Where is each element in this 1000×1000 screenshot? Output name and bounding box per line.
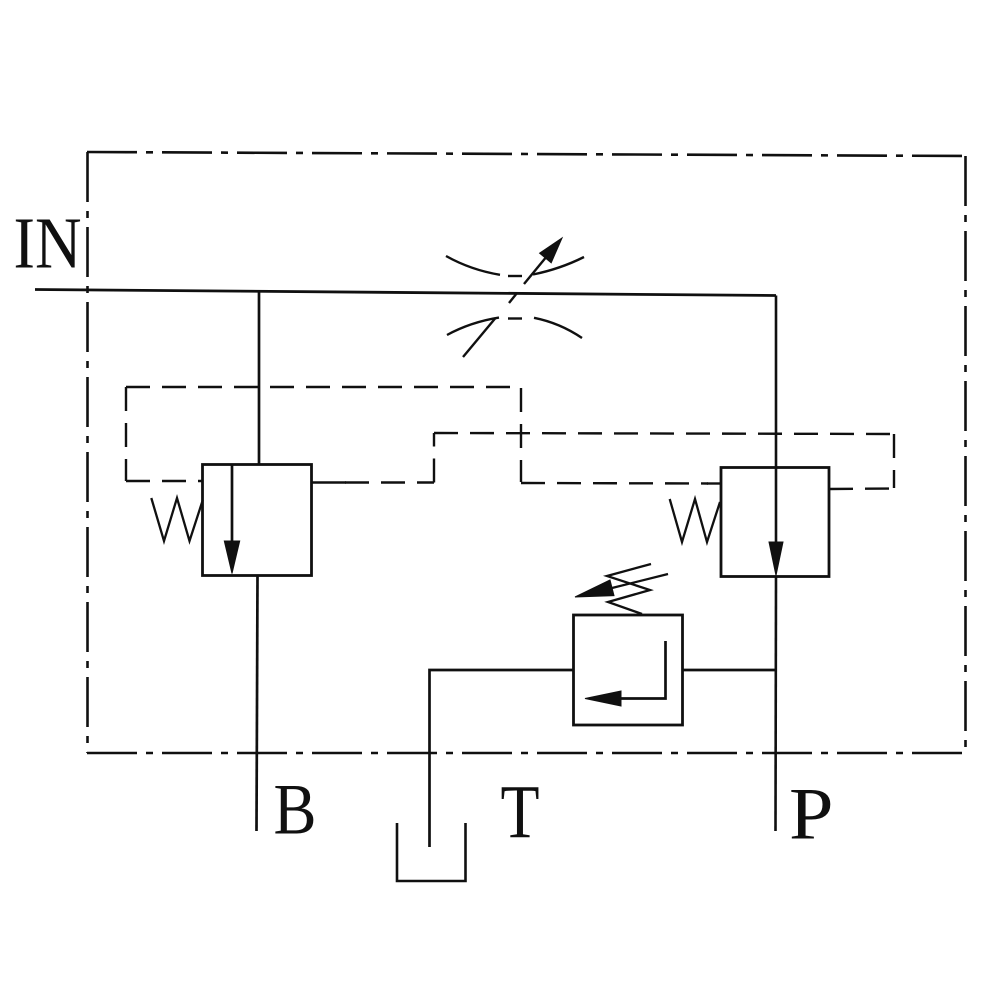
wire: P line through right valve with down arrow bbox=[769, 296, 783, 832]
relief valve body bbox=[574, 615, 683, 725]
tank symbol at T bbox=[397, 823, 466, 881]
variable throttle: top arc (broken with small dash) bbox=[446, 256, 584, 276]
valve body: left pressure compensator bbox=[203, 465, 312, 576]
pilot line: left drop to left valve left port bbox=[125, 387, 127, 481]
left valve internal flow path with down arrow bbox=[224, 465, 239, 574]
spring W of right valve bbox=[670, 499, 720, 542]
relief valve adjustment arrow bbox=[575, 574, 668, 597]
svg-text:IN: IN bbox=[14, 203, 82, 284]
svg-text:P: P bbox=[789, 774, 834, 856]
variable throttle: adjustment arrow bbox=[463, 238, 562, 357]
pilot line: top dashed run from left corner across bbox=[126, 387, 894, 489]
pilot line: drop at x=894 bbox=[893, 434, 895, 488]
wire: left branch down to left valve bbox=[258, 290, 261, 465]
valve body: right pressure compensator bbox=[721, 468, 829, 577]
relief valve internal path with left arrow bbox=[585, 641, 666, 706]
pilot line: run to right valve left port bbox=[521, 482, 708, 485]
svg-text:T: T bbox=[501, 770, 540, 855]
wire: solid stub right valve left port bbox=[707, 482, 721, 484]
wire: B line from left valve to port B bbox=[257, 576, 258, 832]
pilot line: long run y=433 bbox=[434, 433, 894, 434]
pilot line: step up at x=434 bbox=[433, 433, 435, 483]
relief valve spring (diagonal zigzag) bbox=[607, 564, 651, 614]
wire: relief right port to P line bbox=[683, 669, 777, 672]
pilot line: center drop x=521 bbox=[520, 388, 522, 482]
wire: solid stub left valve right port bbox=[312, 481, 347, 483]
variable throttle: bottom arc (broken with small dash) bbox=[447, 318, 582, 338]
enclosure border (dash-dot manifold boundary) bbox=[87, 152, 966, 753]
pilot line: left valve right port run bbox=[345, 481, 434, 483]
pilot line: into right valve right port bbox=[829, 487, 894, 490]
wire: relief left port to T bbox=[430, 670, 574, 847]
spring W of left valve bbox=[151, 498, 203, 541]
svg-text:B: B bbox=[274, 769, 317, 850]
wire: main inlet line from IN to P branch bbox=[35, 290, 776, 296]
